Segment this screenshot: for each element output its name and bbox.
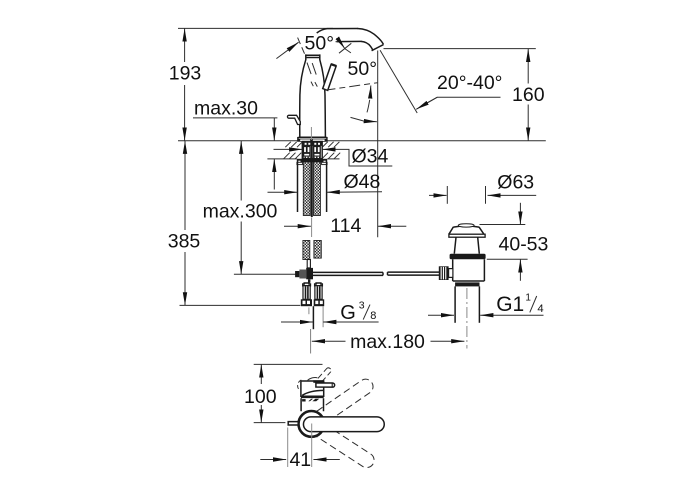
faucet base flange [298, 137, 327, 141]
handle closed position dashed line [298, 38, 307, 58]
svg-text:114: 114 [330, 215, 361, 237]
faucet centerline below [310, 329, 312, 353]
faucet centerline near base [310, 127, 312, 140]
svg-text:100: 100 [244, 386, 277, 408]
svg-text:193: 193 [169, 63, 202, 85]
dimension 100 [244, 364, 277, 422]
40-53 lower extension [487, 258, 528, 260]
top view: base circle [299, 411, 325, 437]
svg-text:385: 385 [168, 231, 201, 253]
dimension 193 top extension line [178, 27, 333, 29]
pop-up rod linkage [234, 268, 313, 283]
top view: dashed lever raised [318, 368, 331, 382]
50deg no.1 right leader arrow [336, 41, 341, 43]
svg-text:max.300: max.300 [203, 200, 278, 222]
dimension O63 [429, 171, 536, 195]
svg-text:Ø63: Ø63 [497, 171, 534, 193]
dimension 160 [512, 49, 545, 141]
dimension O48 [268, 171, 383, 193]
dimension max.30 [193, 97, 277, 189]
svg-text:Ø48: Ø48 [344, 171, 381, 193]
drain centerline [466, 288, 468, 349]
svg-text:4: 4 [537, 303, 543, 315]
svg-text:160: 160 [512, 84, 545, 106]
dimension max.180 [311, 329, 465, 353]
supply hose right upper [314, 146, 321, 216]
svg-text:3: 3 [359, 300, 365, 312]
left hose centerline stub [308, 307, 310, 314]
svg-text:G: G [340, 302, 356, 324]
escutcheon lines (O48) [297, 162, 299, 212]
top view: swing arc dashed lower [317, 424, 375, 467]
50deg no.1 left leader arrow [276, 42, 298, 58]
hidden handle dashes inside body [307, 63, 317, 87]
drain knob nub [449, 269, 453, 278]
dimension max.300 [203, 141, 278, 275]
40-53 plug top extension [480, 224, 526, 226]
drain body [453, 259, 485, 281]
faucet spout underside [337, 40, 362, 42]
supply hose right lower [314, 241, 321, 259]
svg-text:8: 8 [370, 310, 376, 322]
dimension 385 [168, 141, 301, 306]
hose end fitting right [314, 283, 325, 306]
drain body bottom [453, 280, 485, 282]
dimension 193 [169, 28, 202, 140]
svg-text:20°-40°: 20°-40° [437, 72, 502, 94]
horizontal pop-up rod to drain [313, 272, 440, 275]
top view: solid lever [313, 380, 334, 387]
svg-text:50°: 50° [348, 58, 378, 80]
svg-text:40-53: 40-53 [499, 234, 549, 256]
counter hatching right [323, 142, 341, 159]
supply hose left upper [303, 146, 310, 216]
top view: 100 bottom reference line [254, 422, 286, 424]
top view: body outline [298, 377, 324, 411]
dimension O34 [274, 145, 393, 167]
dimension G 3/8 [281, 300, 379, 325]
svg-text:max.30: max.30 [194, 97, 258, 119]
50deg no.2 up arrow with arc tail [369, 86, 372, 99]
handle open position dashed axis [325, 83, 378, 91]
water stream angle line [380, 50, 417, 113]
svg-text:G1: G1 [496, 293, 524, 316]
top view: swing arc dashed upper [317, 379, 373, 423]
counter hatching left [284, 142, 302, 159]
drain O-ring (dark band) [450, 254, 486, 260]
supply hose left lower [303, 241, 310, 260]
drain plug taper [449, 227, 484, 234]
hose end fitting left [301, 283, 312, 306]
faucet body left edge [300, 60, 306, 138]
tailpipe below right fitting [312, 306, 314, 329]
spout tip vertical extension line [377, 51, 379, 238]
hose collars in shank [304, 147, 320, 156]
faucet body right edge [320, 60, 326, 138]
countertop line [178, 140, 546, 142]
top view: rod stub [288, 422, 298, 425]
pop-up rod vertical pin [307, 260, 310, 268]
svg-text:41: 41 [289, 449, 311, 471]
dimension 40-53 [499, 203, 549, 281]
drain plug cap [453, 226, 479, 227]
faucet spout outer curve [317, 29, 358, 34]
50deg no.2 right arrow with arc tail [364, 120, 377, 123]
pop-up knob on body [287, 115, 300, 124]
mounting nut side tabs [297, 162, 303, 164]
threaded shank [302, 142, 322, 159]
drain neck [454, 237, 479, 253]
svg-text:1: 1 [525, 292, 531, 303]
svg-text:Ø34: Ø34 [352, 145, 389, 167]
faucet centerline segment below rod [311, 218, 313, 238]
top view: spout stadium [303, 417, 384, 432]
spout outlet face [372, 45, 384, 51]
dimension 114 [284, 215, 406, 237]
drain tailpipe [454, 286, 456, 322]
dimension G1 1/4 [428, 292, 544, 316]
svg-text:max.180: max.180 [350, 331, 425, 353]
faucet neck joint [305, 54, 320, 60]
svg-text:50°: 50° [305, 33, 335, 55]
counter underside line [267, 158, 339, 160]
dimension 41 [260, 424, 340, 472]
mounting nut (dark flange) [297, 159, 327, 163]
handle lever (solid) [323, 64, 336, 90]
spout tip horizontal extension line [384, 48, 536, 50]
drain plug flange [449, 234, 485, 237]
pop-up rod between hoses [311, 142, 313, 218]
drain knurled knob [439, 266, 449, 280]
top view: 100 top reference line [254, 363, 323, 365]
drain: O63 extension lines [446, 186, 448, 204]
